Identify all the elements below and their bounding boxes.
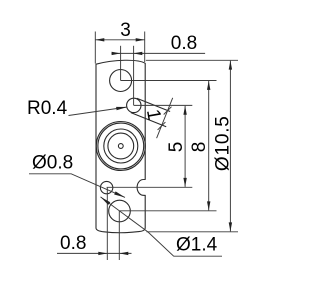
arrow leader R0.4 xyxy=(116,107,127,110)
arrow 3 left xyxy=(95,38,104,41)
arrow 0.8 top left xyxy=(112,52,121,55)
arrow 3 right xyxy=(136,38,145,41)
dim line dia10.5 xyxy=(229,61,231,232)
hole 1.4 xyxy=(109,200,131,222)
svg-text:1: 1 xyxy=(142,108,165,122)
tick 1 lower xyxy=(158,122,166,130)
svg-text:Ø0.8: Ø0.8 xyxy=(32,152,73,173)
big boss middle ring xyxy=(104,129,138,163)
dim line 5 xyxy=(184,106,186,187)
top hole xyxy=(110,70,132,92)
ext line top hole center vertical xyxy=(120,46,122,81)
svg-text:Ø1.4: Ø1.4 xyxy=(176,235,218,256)
arrow 8 down xyxy=(207,201,210,210)
svg-text:R0.4: R0.4 xyxy=(27,98,68,119)
svg-text:8: 8 xyxy=(189,142,210,153)
arrow dia10.5 up xyxy=(229,61,232,70)
slot upper edge xyxy=(137,98,170,111)
arrow 0.8 bottom right xyxy=(119,252,128,255)
ext line 8 bottom xyxy=(120,210,217,212)
dim line 0.8 bottom xyxy=(57,252,132,254)
arrow 5 up xyxy=(183,106,186,115)
leader dia0.8 xyxy=(29,174,125,198)
tick 1 upper xyxy=(164,107,172,115)
arrow leader dia0.8 xyxy=(114,191,125,197)
svg-text:5: 5 xyxy=(166,142,187,153)
dim line 0.8 top xyxy=(112,52,206,54)
svg-text:0.8: 0.8 xyxy=(60,233,86,254)
arrow 0.8 bottom left xyxy=(98,252,107,255)
hole 0.8 xyxy=(100,181,112,193)
big boss inner ring xyxy=(108,133,134,159)
leader dia1.4 xyxy=(101,197,223,256)
ext line 5 bottom xyxy=(107,186,193,188)
arrow 0.8 top right xyxy=(133,52,142,55)
arrow 8 up xyxy=(207,81,210,90)
svg-text:Ø10.5: Ø10.5 xyxy=(212,115,233,171)
ext line 3 right xyxy=(144,32,146,63)
ext line dia10.5 bottom xyxy=(147,231,239,233)
svg-text:0.8: 0.8 xyxy=(171,33,197,54)
slot lower edge xyxy=(131,113,166,127)
dim line 1 xyxy=(157,98,173,138)
big boss outer ring 2 xyxy=(98,123,144,169)
leader R0.4 xyxy=(69,107,128,116)
ext line 0.8 bottom left xyxy=(106,188,108,260)
arrow 5 down xyxy=(183,178,186,187)
ext line slot circle center vertical xyxy=(133,46,135,106)
svg-text:3: 3 xyxy=(120,20,131,41)
part outline xyxy=(96,60,145,233)
ext line dia10.5 top xyxy=(146,59,238,61)
ext line 5 top xyxy=(134,104,193,106)
ext line 8 top xyxy=(121,80,217,82)
arrow dia10.5 down xyxy=(229,222,232,231)
ext line 3 left xyxy=(94,32,96,64)
arrow leader dia1.4 xyxy=(101,197,111,205)
big boss outer ring xyxy=(96,122,145,171)
dim line 3 xyxy=(95,39,144,41)
ext line 0.8 bottom right xyxy=(118,211,120,260)
dim line 8 xyxy=(208,81,210,211)
center dot xyxy=(118,144,123,149)
slot end circle R0.4 xyxy=(127,98,141,112)
